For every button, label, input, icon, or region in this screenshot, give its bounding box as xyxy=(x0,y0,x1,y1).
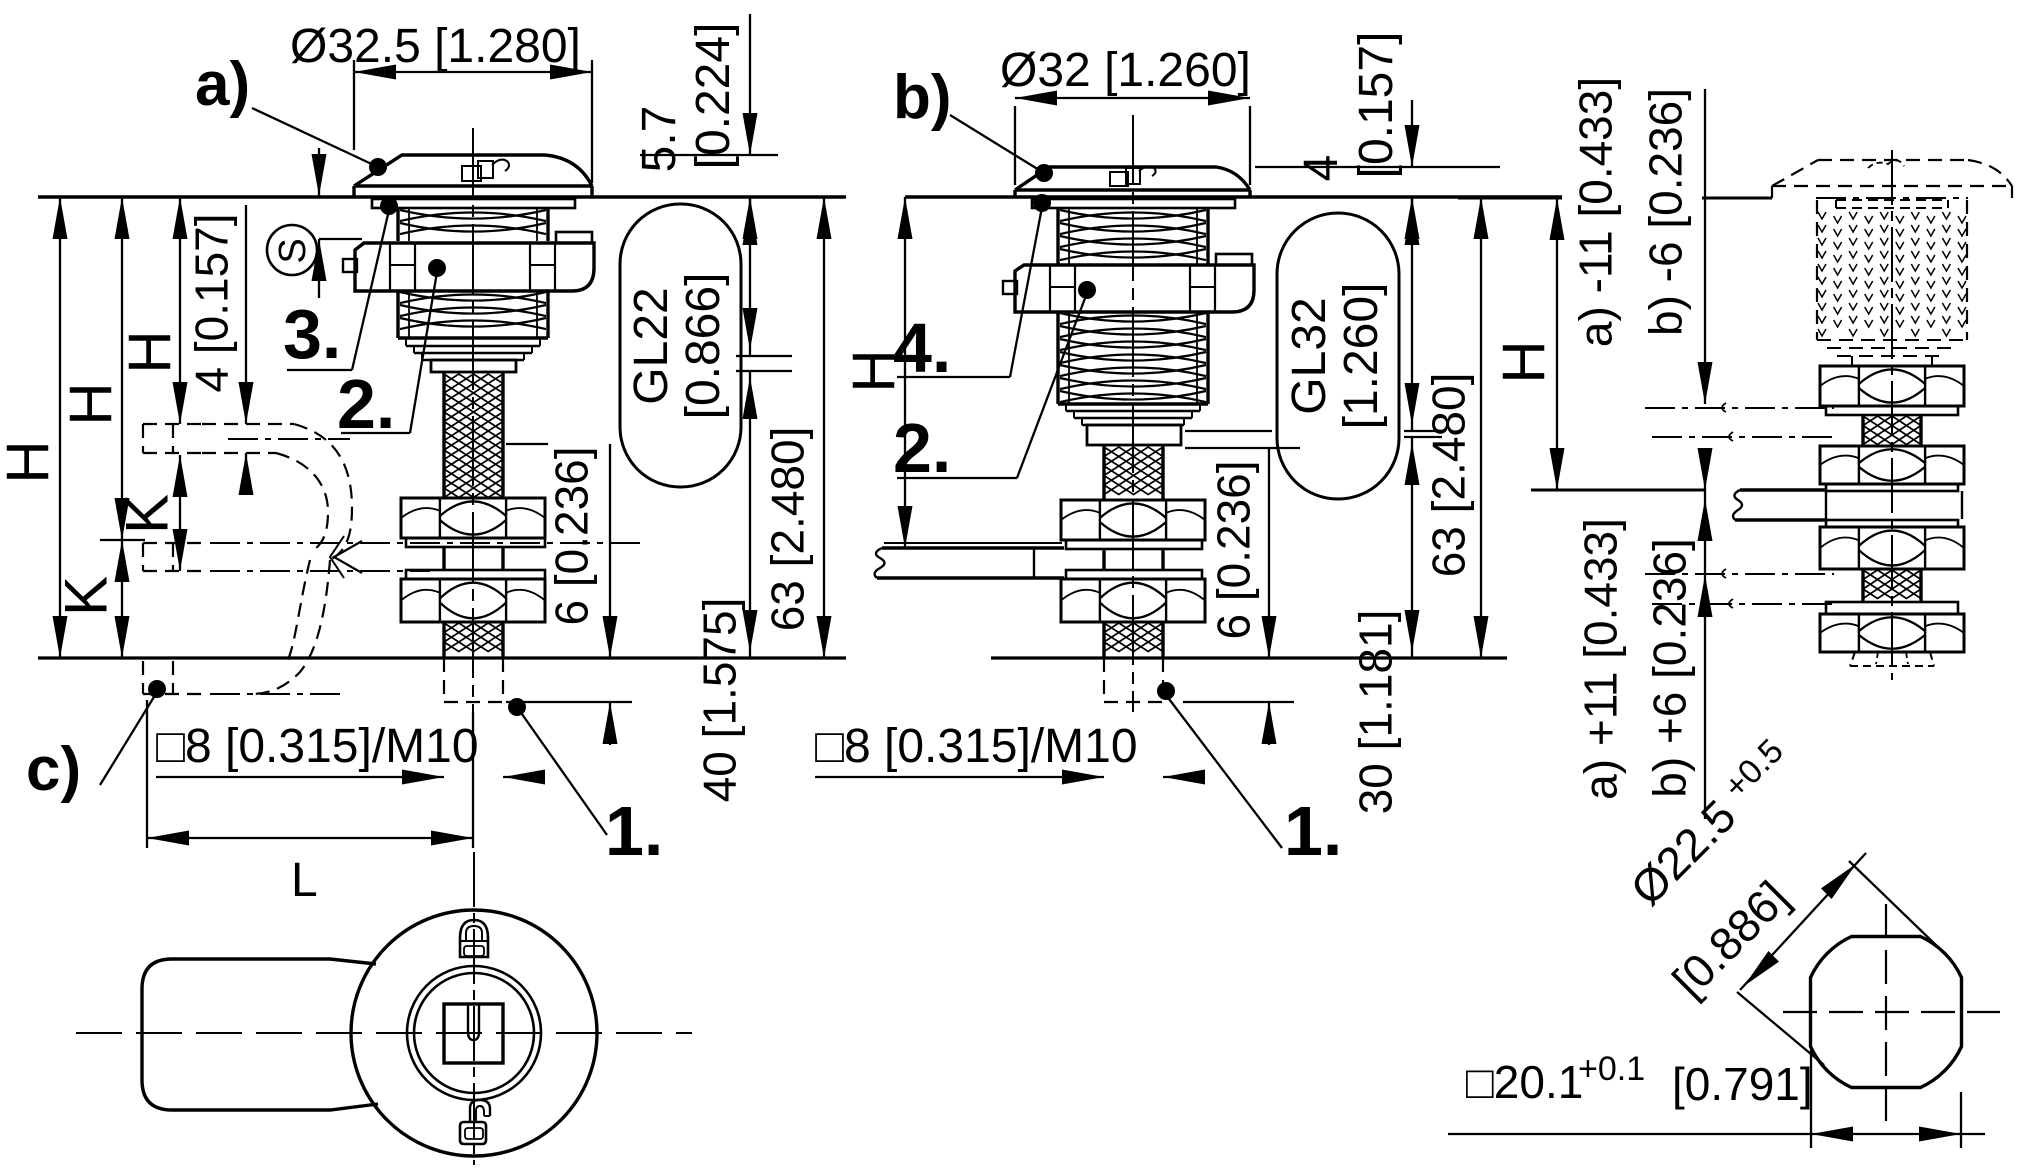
svg-text:2.: 2. xyxy=(893,409,951,487)
fig-b head (flat) xyxy=(1015,167,1250,197)
dim Ø32 [1.260] head diameter xyxy=(1000,44,1251,185)
fig-c washer A xyxy=(1826,406,1958,415)
label square 8 / M10 (fig-a) xyxy=(156,720,479,773)
svg-text:[0.224]: [0.224] xyxy=(687,23,740,170)
svg-text:[0.886]: [0.886] xyxy=(1662,871,1798,1007)
fig-a head (dome) xyxy=(354,155,592,197)
panel thickness symbol S in circle xyxy=(267,225,317,275)
fig-c reference line at panel xyxy=(1531,489,1706,492)
svg-text:b) +6 [0.236]: b) +6 [0.236] xyxy=(1643,538,1695,798)
svg-text:40 [1.575]: 40 [1.575] xyxy=(693,598,745,803)
fig-b threaded spindle upper xyxy=(1104,445,1163,500)
fig-c spindle thread B xyxy=(1863,569,1921,602)
svg-text:[0.157]: [0.157] xyxy=(1350,32,1403,179)
dim square 20.1 width xyxy=(1448,1050,1985,1148)
fig-b washer under panel xyxy=(1032,199,1235,208)
svg-text:6 [0.236]: 6 [0.236] xyxy=(1207,460,1259,639)
top view vertical centerline xyxy=(473,852,475,1165)
dim square-8 spindle (fig-b) xyxy=(815,770,1205,785)
svg-text:b): b) xyxy=(893,63,952,132)
fig-c hex nut D xyxy=(1820,614,1964,652)
label a) with leader xyxy=(195,50,387,176)
fig-c washer D xyxy=(1826,602,1958,614)
dim 63 [2.480] overall (fig-b) xyxy=(1422,197,1488,658)
svg-text:+0.1: +0.1 xyxy=(1578,1050,1645,1088)
svg-text:c): c) xyxy=(26,735,81,804)
svg-text:GL22: GL22 xyxy=(625,287,678,404)
svg-text:Ø32 [1.260]: Ø32 [1.260] xyxy=(1000,44,1251,97)
top view key slot xyxy=(468,1004,479,1040)
svg-text:GL32: GL32 xyxy=(1283,297,1336,414)
phantom cam S-bend arms xyxy=(276,424,352,560)
svg-text:30 [1.181]: 30 [1.181] xyxy=(1349,610,1401,815)
dim H short + K upper (fig-a) xyxy=(114,197,188,571)
svg-text:4: 4 xyxy=(1295,155,1348,182)
top view cam lever xyxy=(142,959,378,1110)
phantom cam slot lower position xyxy=(143,543,202,571)
fig-b threaded spindle lower xyxy=(1104,622,1163,658)
label b) with leader xyxy=(893,63,1053,182)
fig-b spindle grip section xyxy=(1104,549,1163,570)
fig-b hidden spindle below panel xyxy=(1104,658,1163,702)
top view square drive xyxy=(444,1004,503,1063)
dim square-8 spindle (fig-a) xyxy=(156,770,545,785)
dim GL22 thread length xyxy=(736,197,792,356)
fig-c hidden threaded sleeve xyxy=(1817,200,1967,340)
dim Ø32.5 [1.280] head diameter xyxy=(290,20,592,183)
svg-text:1.: 1. xyxy=(1284,792,1342,870)
dim 5.7 [0.224] head height xyxy=(633,14,778,240)
fig-c hidden spindle end xyxy=(1850,652,1934,666)
top view horizontal centerline xyxy=(76,1032,692,1034)
fig-c bracket plate xyxy=(1733,490,1962,520)
svg-text:□20.1: □20.1 xyxy=(1466,1056,1583,1108)
fig-a hidden spindle below panel xyxy=(444,658,503,702)
dim 63 [2.480] overall (fig-a) xyxy=(761,197,831,658)
bottom reference line (figs a,b) xyxy=(38,656,1507,659)
svg-text:□8 [0.315]/M10: □8 [0.315]/M10 xyxy=(156,720,479,773)
label Ø22.5 +0.5 rotated xyxy=(1619,732,1802,1007)
svg-text:H: H xyxy=(841,349,908,392)
dim Ø22.5 diagonal xyxy=(1737,853,1940,1065)
fig-b threaded sleeve lower xyxy=(1058,312,1208,404)
svg-text:[0.866]: [0.866] xyxy=(677,273,730,420)
fig-c phantom panel upper (open position) xyxy=(1645,403,1834,441)
fig-a threaded spindle upper xyxy=(444,372,503,498)
label 1. with leader (fig-b) xyxy=(1157,682,1342,870)
octagon cutout (square with corner arcs) xyxy=(1811,937,1962,1088)
svg-text:1.: 1. xyxy=(605,792,663,870)
fig-a lock ring nut xyxy=(343,232,594,291)
fig-c centerline axis xyxy=(1891,150,1893,680)
svg-text:□8 [0.315]/M10: □8 [0.315]/M10 xyxy=(815,720,1138,773)
fig-c washer B xyxy=(1826,484,1958,491)
fig-a washer under panel xyxy=(372,199,575,208)
dim a)-11 b)-6 above panel xyxy=(1569,77,1712,490)
fig-c washer C xyxy=(1826,520,1958,527)
top view inner rings xyxy=(407,966,541,1100)
dim L cam length (fig-a) xyxy=(147,700,473,907)
svg-text:3.: 3. xyxy=(283,295,341,373)
fig-c hex nut C xyxy=(1820,527,1964,569)
label c) with leader xyxy=(26,680,166,804)
fig-a collar xyxy=(431,360,516,372)
fig-a hex nut upper xyxy=(401,498,545,538)
svg-text:[0.791]: [0.791] xyxy=(1672,1058,1813,1110)
fig-a threaded sleeve upper xyxy=(398,208,548,241)
top view open padlock icon xyxy=(460,1100,490,1144)
phantom lower centerlines xyxy=(210,543,640,571)
dim S panel thickness xyxy=(312,148,363,298)
label 2. with leader xyxy=(337,259,446,443)
svg-text:H: H xyxy=(0,440,62,483)
dim H (fig-b) xyxy=(841,197,913,548)
fig-a threaded sleeve lower xyxy=(398,291,548,338)
stadium label GL32 [1.260] xyxy=(1277,213,1399,499)
svg-text:a): a) xyxy=(195,50,250,119)
fig-a hex nut lower xyxy=(401,579,545,622)
fig-c hidden washer under head xyxy=(1836,200,1948,208)
fig-b step rings xyxy=(1058,404,1208,425)
fig-a step rings xyxy=(398,338,548,360)
svg-text:L: L xyxy=(291,854,318,907)
fig-b washer B xyxy=(1066,570,1202,579)
fig-b lock ring nut xyxy=(1003,254,1254,312)
fig-b hex nut upper xyxy=(1061,500,1205,540)
fig-a washer A xyxy=(406,538,545,547)
svg-text:63 [2.480]: 63 [2.480] xyxy=(1422,373,1474,578)
top view housing circle xyxy=(351,910,597,1156)
fig-a centerline axis xyxy=(472,128,474,712)
svg-text:a) +11 [0.433]: a) +11 [0.433] xyxy=(1574,518,1626,800)
fig-b hex nut lower xyxy=(1061,579,1205,622)
fig-c spindle thread A xyxy=(1863,415,1921,446)
dim H overall left (fig-a) xyxy=(0,197,68,658)
label 1. with leader xyxy=(508,698,663,870)
fig-c hex nut A xyxy=(1820,366,1964,406)
svg-text:H: H xyxy=(58,382,125,425)
label 2. with leader (fig-b) xyxy=(893,281,1096,487)
fig-c phantom panel lower (open position) xyxy=(1645,569,1834,608)
dim GL32 thread length xyxy=(1185,197,1442,431)
fig-a threaded spindle lower xyxy=(444,622,503,658)
fig-c hidden step rings xyxy=(1817,340,1967,366)
svg-text:Ø32.5 [1.280]: Ø32.5 [1.280] xyxy=(290,20,581,73)
fig-a spindle grip section xyxy=(444,547,503,570)
dim 4 [0.157] head height (fig-b) xyxy=(1255,32,1500,245)
dim 40 [1.575] grip length (fig-a) xyxy=(693,371,792,802)
svg-text:[1.260]: [1.260] xyxy=(1335,283,1388,430)
svg-text:5.7: 5.7 xyxy=(633,106,686,173)
label 3. with leader xyxy=(283,197,398,373)
fig-b collar xyxy=(1087,425,1181,445)
dim 4 [0.157] cam thickness (fig-a) xyxy=(185,205,253,495)
dim 30 [1.181] grip length (fig-b) xyxy=(1349,437,1442,814)
svg-text:K: K xyxy=(53,576,120,616)
svg-text:2.: 2. xyxy=(337,365,395,443)
phantom cam slot upper centerline xyxy=(228,438,350,440)
dim H (fig-c) xyxy=(1491,198,1565,490)
fig-b retaining clip icon on head xyxy=(1110,166,1156,186)
svg-text:63 [2.480]: 63 [2.480] xyxy=(761,427,813,632)
phantom cam slot upper position xyxy=(143,424,294,453)
phantom cam below bottom line xyxy=(143,560,340,694)
svg-text:6 [0.236]: 6 [0.236] xyxy=(545,446,597,625)
fig-a retaining clip icon on head xyxy=(462,160,509,181)
svg-text:H: H xyxy=(1491,340,1558,383)
fig-b washer A xyxy=(1066,540,1202,549)
dim 6 [0.236] thread stub (fig-a) xyxy=(506,444,632,745)
label square 8 / M10 (fig-b) xyxy=(815,720,1138,773)
fig-c hidden head outline xyxy=(1772,160,2012,198)
mounting panel surface line (figs a,b) xyxy=(38,195,1562,199)
fig-b threaded sleeve upper xyxy=(1058,208,1208,265)
stadium label GL22 [0.866] xyxy=(620,204,741,487)
dim a)+11 b)+6 below panel xyxy=(1574,490,1712,819)
svg-text:S: S xyxy=(272,238,314,263)
label 4. with leader xyxy=(893,194,1051,387)
dim 6 [0.236] thread stub (fig-b) xyxy=(1183,448,1300,745)
fig-c hex nut B xyxy=(1820,446,1964,484)
octagon centerlines xyxy=(1783,904,2000,1121)
dim H mid + K (fig-a) xyxy=(53,197,145,658)
svg-text:a) -11 [0.433]: a) -11 [0.433] xyxy=(1569,77,1621,347)
fig-a washer B xyxy=(406,570,545,579)
phantom cam tip chevron xyxy=(330,536,362,578)
fig-b mounting bracket plate xyxy=(875,543,1064,578)
label square 20.1 +0.1 [0.791] xyxy=(1466,1050,1813,1110)
svg-text:K: K xyxy=(114,494,181,534)
svg-text:4 [0.157]: 4 [0.157] xyxy=(185,213,237,392)
svg-text:H: H xyxy=(117,330,184,373)
svg-text:b) -6 [0.236]: b) -6 [0.236] xyxy=(1639,88,1691,336)
top view closed padlock icon xyxy=(460,920,488,957)
fig-b centerline axis xyxy=(1132,115,1134,712)
fig-c reference line top xyxy=(1458,197,1968,200)
